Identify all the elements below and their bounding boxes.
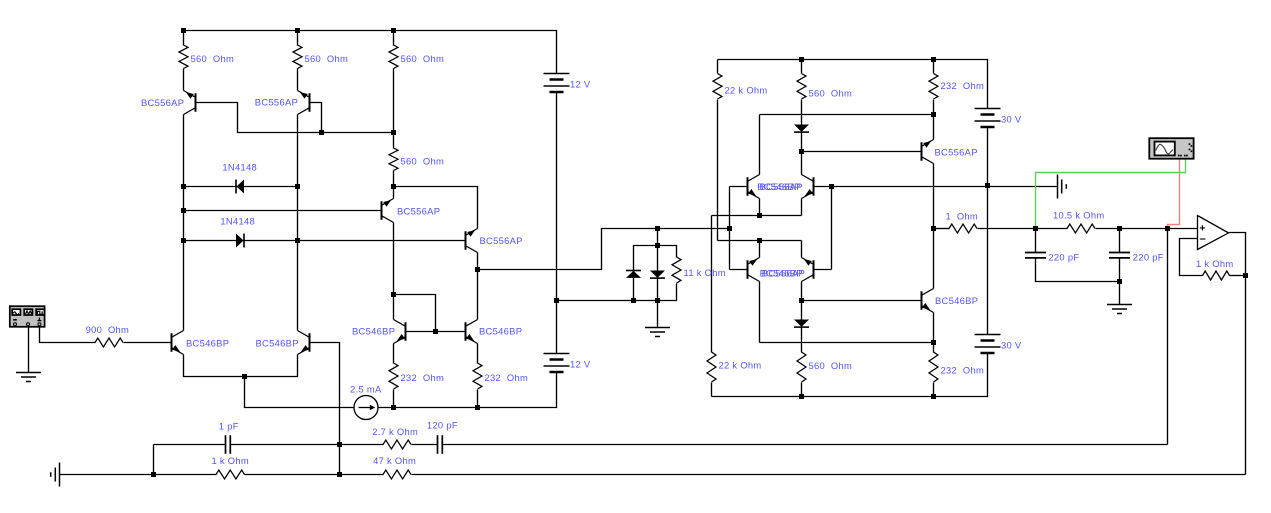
diode D3 xyxy=(626,271,641,278)
wire mirror base tie xyxy=(394,295,436,332)
node (832,186) xyxy=(829,184,834,189)
node (802,152) xyxy=(799,149,804,154)
svg-text:900 Ohm: 900 Ohm xyxy=(86,324,130,335)
diode D6 xyxy=(794,320,809,328)
resistor R11 xyxy=(949,224,977,233)
wire scope channel A probe xyxy=(1036,159,1186,229)
ground (bias network) xyxy=(645,328,670,337)
wire feedback row B right xyxy=(412,474,1246,476)
wire diode row 2 to Q4 base xyxy=(184,240,466,242)
node (478,408) xyxy=(475,405,480,410)
wire column 2 xyxy=(297,115,299,331)
node (802,60) xyxy=(799,57,804,62)
svg-text:BC546BP: BC546BP xyxy=(479,326,522,337)
node (760,216) xyxy=(757,213,762,218)
svg-text:11 k Ohm: 11 k Ohm xyxy=(684,267,726,278)
wire xyxy=(933,60,935,74)
resistor R3 xyxy=(389,45,398,69)
svg-text:560 Ohm: 560 Ohm xyxy=(809,360,853,371)
wire right top rail to battery V2 xyxy=(718,60,988,109)
transistor Q2 BC556AP PNP xyxy=(298,91,310,115)
wire Q14 emitter lead xyxy=(933,313,935,343)
wire to D6 xyxy=(801,301,803,320)
wire xyxy=(412,444,438,446)
svg-text:232 Ohm: 232 Ohm xyxy=(941,365,985,376)
resistor R16 xyxy=(95,338,123,347)
wire row A-B tie xyxy=(153,445,155,475)
svg-text:22 k Ohm: 22 k Ohm xyxy=(719,360,762,371)
wire feedback row A xyxy=(154,444,226,446)
resistor R9 xyxy=(797,74,806,100)
node (394,132) xyxy=(391,130,396,135)
svg-text:1 Ohm: 1 Ohm xyxy=(946,211,979,222)
svg-text:2.7 k Ohm: 2.7 k Ohm xyxy=(372,426,418,437)
resistor R14 xyxy=(797,352,806,382)
node (244,376) xyxy=(242,374,247,379)
node (478,270) xyxy=(475,267,480,272)
wire feedback riser xyxy=(1167,229,1169,445)
node (988,186) xyxy=(985,183,990,188)
wire xyxy=(801,383,803,397)
transistor Q7 BC546BP NPN xyxy=(172,331,184,355)
op-amp U1 xyxy=(1198,216,1229,250)
svg-text:220 pF: 220 pF xyxy=(1048,252,1079,263)
svg-text:BC556AP: BC556AP xyxy=(397,206,440,217)
node (184,210) xyxy=(181,208,186,213)
wire to R15 xyxy=(933,343,935,353)
wire Q12 collector riser xyxy=(759,282,761,343)
transistor Q12 driver xyxy=(748,258,760,282)
wire to ground xyxy=(28,328,30,373)
wire xyxy=(393,133,395,149)
resistor R17 xyxy=(216,470,245,479)
node (658,228) xyxy=(655,226,660,231)
ground (output filter) xyxy=(1107,305,1132,314)
node (934,396) xyxy=(931,394,936,399)
svg-text:47 k Ohm: 47 k Ohm xyxy=(373,455,416,466)
wire xyxy=(297,69,299,91)
battery V4 12 V xyxy=(544,354,570,373)
resistor R7 xyxy=(672,257,681,283)
wire xyxy=(711,383,713,397)
svg-text:2.5 mA: 2.5 mA xyxy=(350,384,382,395)
node (658,246) xyxy=(655,243,660,248)
transistor Q11 driver xyxy=(802,175,814,199)
wire Q10 base xyxy=(730,186,748,188)
wire xyxy=(393,171,395,187)
wire scope channel B probe xyxy=(1168,159,1180,229)
svg-text:22 k Ohm: 22 k Ohm xyxy=(725,85,768,96)
wire output row to op-amp xyxy=(1096,228,1198,230)
wire input pair emitters xyxy=(184,355,298,377)
wire battery V1 negative xyxy=(556,93,558,301)
wire Q12 base xyxy=(730,269,748,271)
ground (feedback, sideways) xyxy=(51,463,60,487)
wire output row xyxy=(934,228,950,230)
svg-text:220 pF: 220 pF xyxy=(1133,252,1164,263)
wire Q3 collector down xyxy=(393,223,395,295)
wire Q5 collector lead xyxy=(393,295,395,320)
node (1120,228) xyxy=(1117,226,1122,231)
transistor Q3 BC556AP PNP xyxy=(382,199,394,223)
svg-text:1 k Ohm: 1 k Ohm xyxy=(212,455,250,466)
wire left column xyxy=(183,115,185,331)
svg-text:30 V: 30 V xyxy=(1001,114,1022,125)
wire to Q7 base xyxy=(124,342,172,344)
wire Q10 collector row xyxy=(760,114,934,116)
current source I1 2.5 mA xyxy=(354,396,378,420)
wire feedback row A right xyxy=(443,444,1168,446)
svg-text:232 Ohm: 232 Ohm xyxy=(401,372,445,383)
oscilloscope XSC1 xyxy=(1149,138,1193,159)
wire middle row to Q3 base xyxy=(184,210,382,212)
wire D6 to R14 xyxy=(801,328,803,353)
node (340,444) xyxy=(337,442,342,447)
node (322,132) xyxy=(319,130,324,135)
wire Q3 emitter lead xyxy=(393,187,395,199)
svg-text:1 k Ohm: 1 k Ohm xyxy=(1196,258,1234,269)
node (934,228) xyxy=(931,226,936,231)
wire Q12 collector row xyxy=(760,342,934,344)
wire xyxy=(393,69,395,133)
wire right bottom rail to battery V3 xyxy=(712,354,988,397)
wire xyxy=(183,31,185,46)
wire Q4 emitter net xyxy=(394,187,478,229)
node (934,114) xyxy=(931,112,936,117)
resistor R4 xyxy=(389,148,398,171)
wire Q11 base xyxy=(814,186,832,188)
node (802,396) xyxy=(799,394,804,399)
wire lower emitter rail xyxy=(718,240,802,242)
wire Q1 base net xyxy=(196,103,394,133)
diode D2 1N4148 xyxy=(236,234,244,248)
transistor Q4 BC556AP PNP xyxy=(466,229,478,253)
node (658,300) xyxy=(655,298,660,303)
wire to current source xyxy=(245,377,355,408)
wire C3 top lead xyxy=(1119,229,1121,253)
resistor R12 xyxy=(1067,224,1095,233)
wire to battery V4 xyxy=(556,301,558,354)
capacitor C2 220 pF xyxy=(1025,253,1046,258)
battery V1 12 V xyxy=(544,74,570,93)
wire current source row to battery V4 xyxy=(379,373,557,408)
wire op-amp output xyxy=(1229,233,1246,276)
wire xyxy=(717,60,719,74)
wire reference row to ground xyxy=(832,186,1058,188)
transistor Q10 driver xyxy=(748,175,760,199)
node (760,240) xyxy=(757,238,762,243)
wire xyxy=(393,31,395,46)
diode D1 1N4148 xyxy=(236,180,244,194)
node (340,474) xyxy=(337,472,342,477)
node (556,300) xyxy=(554,298,559,303)
wire to D3 xyxy=(634,246,658,271)
resistor R1 xyxy=(179,45,188,69)
wire Q6 emitter lead xyxy=(477,344,479,364)
node (394,408) xyxy=(391,405,396,410)
wire to R7 xyxy=(658,246,677,258)
resistor R6 xyxy=(473,363,482,389)
diode D5 xyxy=(794,125,809,133)
resistor R2 xyxy=(293,45,302,69)
wire bias row xyxy=(557,284,677,301)
wire upper emitter rail xyxy=(712,215,802,217)
svg-text:BC556AP: BC556AP xyxy=(760,181,803,192)
node (298,240) xyxy=(295,238,300,243)
node (298,186) xyxy=(295,184,300,189)
svg-text:560 Ohm: 560 Ohm xyxy=(305,53,349,64)
svg-text:12 V: 12 V xyxy=(570,359,591,370)
wire xyxy=(183,69,185,91)
wire Q9 collector to output xyxy=(933,164,935,229)
transistor Q13 driver xyxy=(802,258,814,282)
wire output to Q14 collector xyxy=(933,229,935,289)
node (1120,282) xyxy=(1117,279,1122,284)
wire xyxy=(633,278,635,301)
wire R8 to lower rail xyxy=(717,100,719,241)
wire C2 bottom lead xyxy=(1036,259,1120,282)
wire diode row 1 xyxy=(184,186,298,188)
wire op-amp output riser xyxy=(1245,276,1247,475)
wire from function generator xyxy=(40,328,96,343)
wire supply midpoint column xyxy=(987,186,989,335)
node (934,60) xyxy=(931,57,936,62)
transistor Q14 BC546BP NPN xyxy=(922,289,934,313)
svg-text:120 pF: 120 pF xyxy=(427,420,458,431)
svg-text:12 V: 12 V xyxy=(570,79,591,90)
resistor R5 xyxy=(389,363,398,389)
node (634,300) xyxy=(631,298,636,303)
svg-text:30 V: 30 V xyxy=(1001,340,1022,351)
node (802,300) xyxy=(799,298,804,303)
wire R10 to Q9 emitter xyxy=(933,100,935,140)
wire Q14 base xyxy=(802,300,922,302)
svg-text:BC546BP: BC546BP xyxy=(935,295,978,306)
transistor Q6 BC546BP NPN xyxy=(466,320,478,344)
wire xyxy=(657,229,659,246)
svg-text:1N4148: 1N4148 xyxy=(220,216,255,227)
wire Q10 collector riser xyxy=(759,115,761,175)
capacitor C1 1 pF xyxy=(226,435,231,454)
wire upper rail to R13 xyxy=(711,216,713,353)
transistor Q9 BC556AP PNP xyxy=(922,140,934,164)
node (1168,228) xyxy=(1165,226,1170,231)
capacitor C4 120 pF xyxy=(438,435,443,454)
wire Q11-Q13 base tie xyxy=(831,187,833,270)
node (298,30) xyxy=(295,28,300,33)
svg-text:1N4148: 1N4148 xyxy=(222,162,257,173)
battery V3 30 V xyxy=(975,335,1001,354)
wire Q13 emitter lead xyxy=(801,241,803,258)
wire output row xyxy=(978,228,1068,230)
wire xyxy=(933,383,935,397)
svg-text:BC546BP: BC546BP xyxy=(186,338,229,349)
svg-text:BC556AP: BC556AP xyxy=(935,147,978,158)
wire Q8 base feedback tap xyxy=(310,343,340,475)
wire top rail to battery V1 xyxy=(184,31,557,74)
wire xyxy=(245,474,384,476)
svg-text:BC546BP: BC546BP xyxy=(352,326,395,337)
wire Q11 collector lead xyxy=(801,152,803,175)
svg-text:232 Ohm: 232 Ohm xyxy=(485,372,529,383)
resistor R10 xyxy=(929,74,938,100)
wire to D4 xyxy=(657,246,659,271)
wire C2 top lead xyxy=(1035,229,1037,253)
wire xyxy=(231,444,384,446)
node (1246,276) xyxy=(1243,273,1248,278)
transistor Q5 BC546BP NPN xyxy=(394,320,406,344)
wire Q11 emitter lead xyxy=(801,199,803,216)
wire xyxy=(801,60,803,74)
resistor R13 xyxy=(707,352,716,382)
wire Q4 collector xyxy=(477,253,479,270)
node (394,30) xyxy=(391,28,396,33)
wire R9 to D5 xyxy=(801,100,803,125)
wire Q5-Q6 base row xyxy=(406,331,466,333)
wire Q13 base xyxy=(814,269,832,271)
node (730,228) xyxy=(727,226,732,231)
wire VAS output coupling xyxy=(478,229,730,270)
svg-text:560 Ohm: 560 Ohm xyxy=(809,88,853,99)
node (394,294) xyxy=(391,292,396,297)
svg-text:BC556AP: BC556AP xyxy=(480,235,523,246)
node (394,186) xyxy=(391,184,396,189)
wire xyxy=(801,133,803,152)
node (934,342) xyxy=(931,340,936,345)
svg-text:232 Ohm: 232 Ohm xyxy=(941,80,985,91)
battery V2 30 V xyxy=(975,109,1001,128)
svg-text:BC556AP: BC556AP xyxy=(255,97,298,108)
resistor R8 xyxy=(713,74,722,100)
node (154,474) xyxy=(151,472,156,477)
svg-text:560 Ohm: 560 Ohm xyxy=(401,155,445,166)
wire battery V2 negative xyxy=(987,128,989,186)
wire Q13 collector lead xyxy=(801,282,803,301)
node (184,30) xyxy=(181,28,186,33)
ground (scope reference, sideways) xyxy=(1058,175,1067,199)
diode D4 xyxy=(650,271,665,279)
transistor Q1 BC556AP PNP xyxy=(184,91,196,115)
wire feedback row B xyxy=(60,474,217,476)
node (1036,228) xyxy=(1033,226,1038,231)
function generator XFG1 xyxy=(10,306,45,327)
wire xyxy=(477,390,479,408)
svg-text:1 pF: 1 pF xyxy=(219,421,239,432)
node (184,186) xyxy=(181,184,186,189)
svg-text:BC556AP: BC556AP xyxy=(141,97,184,108)
resistor R18 xyxy=(383,470,411,479)
wire Q2 base xyxy=(310,103,322,133)
svg-text:560 Ohm: 560 Ohm xyxy=(191,53,235,64)
wire Q5 emitter lead xyxy=(393,344,395,364)
wire Q9 base xyxy=(802,151,922,153)
resistor R20 xyxy=(1203,271,1230,280)
resistor R15 xyxy=(929,352,938,382)
wire Q6 collector lead xyxy=(477,270,479,320)
svg-text:BC546BP: BC546BP xyxy=(256,338,299,349)
svg-text:10.5 k Ohm: 10.5 k Ohm xyxy=(1053,210,1104,221)
wire xyxy=(1230,275,1246,277)
node (436,332) xyxy=(433,329,438,334)
ground (input) xyxy=(16,373,41,382)
wire C3 to ground xyxy=(1119,259,1121,305)
wire driver input column xyxy=(729,187,731,270)
resistor R19 xyxy=(383,440,411,449)
wire Q10 emitter lead xyxy=(759,199,761,216)
node (184,240) xyxy=(181,238,186,243)
wire xyxy=(393,390,395,408)
wire op-amp inverting input loop xyxy=(1180,239,1203,276)
capacitor C3 220 pF xyxy=(1109,253,1130,258)
wire D4 to ground xyxy=(657,279,659,328)
wire Q12 emitter lead xyxy=(759,241,761,258)
wire xyxy=(297,31,299,46)
transistor Q8 BC546BP NPN xyxy=(298,331,310,355)
svg-text:BC556AP: BC556AP xyxy=(762,268,805,279)
svg-text:560 Ohm: 560 Ohm xyxy=(401,53,445,64)
